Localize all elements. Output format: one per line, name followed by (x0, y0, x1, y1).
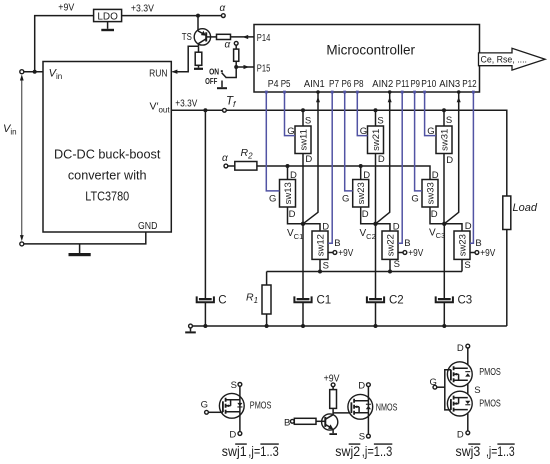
terminal alpha (top) (221, 14, 225, 18)
node VC3 (442, 222, 446, 226)
svg-text:,j=1..3: ,j=1..3 (248, 444, 278, 459)
wire VC3 down to C3 (443, 224, 445, 298)
wire P8 to sw21 G (357, 92, 367, 136)
pin P5 connection dot (283, 91, 286, 94)
svg-text:D: D (362, 209, 369, 220)
svg-text:sw21: sw21 (371, 129, 382, 151)
node rail-C3 (442, 324, 446, 328)
svg-text:sw13: sw13 (283, 182, 294, 204)
wire VC3 to sw23b D (444, 224, 462, 231)
node VC1 (301, 222, 305, 226)
svg-text:S: S (231, 380, 237, 391)
switch sw21 (368, 126, 384, 154)
svg-text:NMOS: NMOS (376, 402, 398, 413)
pin P6 connection dot (343, 91, 346, 94)
svg-text:+3.3V: +3.3V (131, 3, 154, 14)
svg-text:TS: TS (182, 32, 192, 43)
svg-text:S: S (305, 116, 311, 127)
terminal G (205, 410, 209, 414)
node rail-sw31 (442, 108, 446, 112)
svg-text:C: C (218, 294, 226, 306)
wire VC2 down to C2 (375, 224, 377, 298)
svg-text:B: B (404, 238, 410, 249)
transistor swj3 top PMOS (447, 362, 472, 387)
svg-text:+9V: +9V (338, 248, 353, 259)
stubs (226, 400, 240, 412)
wire P9 to sw33 G (415, 92, 422, 191)
svg-text:ON: ON (209, 67, 219, 76)
wire P12 to sw23b B (470, 92, 473, 243)
wire S stub sw11 (302, 110, 304, 126)
wire sw13 top D stub (287, 166, 289, 180)
wire collector to NMOS gate (333, 412, 351, 414)
switch ON/OFF (205, 67, 236, 86)
terminal +9V sw12 (328, 252, 333, 254)
wire P5 to sw11 G (285, 92, 296, 136)
caption swj1 (222, 444, 279, 459)
wire diagonal VC1 to AIN1 (303, 92, 318, 224)
pin P8 connection dot (356, 91, 359, 94)
wire rail down to capacitor C (204, 110, 206, 298)
wire diagonal VC3 to AIN3 (444, 92, 458, 224)
resistor R2 (228, 147, 257, 170)
wire VC1 down to C1 (302, 224, 304, 298)
svg-text:α: α (220, 3, 226, 14)
node +9V tap (33, 70, 37, 74)
terminal alpha (R2) (224, 164, 228, 168)
svg-text:AIN1: AIN1 (304, 79, 325, 90)
svg-text:swj3: swj3 (456, 444, 481, 459)
svg-text:G: G (201, 400, 208, 411)
gate bracket (445, 370, 451, 410)
terminal alpha (P15 pull-up) (234, 41, 238, 45)
ground on GND wire (79, 244, 81, 253)
wire to P15 with arrow (236, 65, 254, 69)
svg-text:,j=1..3: ,j=1..3 (362, 444, 393, 459)
body diode tip up (366, 406, 371, 409)
wire P11 to sw22 B (398, 92, 402, 243)
svg-text:S: S (474, 385, 480, 396)
switch sw23 (353, 180, 369, 208)
wire Vin to box (24, 71, 43, 73)
wire P6 to sw23 G (345, 92, 353, 191)
svg-text:P4: P4 (268, 79, 279, 90)
node rail-R1 (265, 324, 269, 328)
terminal D bottom (466, 431, 470, 435)
transistor swj3 bottom PMOS (447, 391, 472, 416)
arrow AIN1 (316, 97, 320, 103)
svg-text:P8: P8 (354, 79, 364, 90)
node rail-sw21 (374, 108, 378, 112)
switch sw33 (422, 180, 438, 208)
svg-text:S: S (359, 431, 365, 442)
node junction to TS emitter (196, 14, 200, 18)
svg-text:P11: P11 (396, 79, 410, 90)
wire +9V from Vin node up to LDO (35, 16, 94, 72)
terminal +9V legend (331, 383, 335, 387)
arrow toward TS on P14 wire (243, 35, 249, 39)
svg-text:sw31: sw31 (440, 129, 451, 151)
terminal D (238, 432, 242, 436)
svg-text:,j=1..3: ,j=1..3 (486, 444, 515, 459)
node R2-sw23 (359, 164, 363, 168)
svg-text:P6: P6 (342, 79, 352, 90)
resistor R1 (246, 272, 271, 327)
resistor Load (503, 196, 538, 326)
node sw12S-rail (318, 270, 322, 274)
svg-text:P12: P12 (462, 79, 477, 90)
svg-text:AIN3: AIN3 (439, 79, 460, 90)
capacitor C3 (436, 294, 473, 326)
wire P4 to sw13 G (266, 92, 279, 191)
node VC2 (373, 222, 377, 226)
svg-text:PMOS: PMOS (479, 398, 501, 409)
svg-text:swj1: swj1 (222, 444, 247, 459)
svg-text:G: G (269, 193, 276, 204)
block arrow Ce, Rse output (479, 48, 546, 70)
LDO U-LDO box (94, 9, 122, 21)
wire P10 to sw31 G (425, 92, 436, 136)
node P15 junction (234, 65, 238, 69)
wire S-rail (267, 271, 462, 273)
wire sw11 D to VC1 (302, 154, 304, 224)
resistor collector pull-up (332, 387, 334, 390)
svg-text:C1: C1 (317, 294, 332, 306)
svg-text:PMOS: PMOS (479, 367, 501, 378)
svg-text:DC-DC buck-boost: DC-DC buck-boost (54, 147, 161, 162)
node rail-C2 (374, 324, 378, 328)
capacitor C1 (294, 294, 331, 326)
svg-text:+3.3V: +3.3V (175, 98, 197, 109)
svg-text:D: D (457, 343, 464, 354)
resistor base of TS (to P14) (206, 34, 254, 39)
svg-text:D: D (465, 221, 472, 232)
svg-text:+9V: +9V (408, 248, 423, 259)
wire VC2 to sw22 D (376, 224, 391, 231)
pin P9 connection dot (413, 91, 416, 94)
wire sw13 bottom D to VC1 (288, 207, 304, 224)
terminal Vin+ (20, 70, 24, 74)
svg-text:α: α (225, 40, 231, 51)
pin AIN3 connection dot (457, 90, 461, 94)
svg-text:P7: P7 (329, 79, 339, 90)
node rail-sw11 (301, 108, 305, 112)
terminal G legend3 (433, 385, 437, 389)
svg-text:S: S (464, 260, 470, 271)
switch sw31 (436, 126, 452, 154)
svg-text:+9V: +9V (480, 248, 495, 259)
wire sw12 S stub (319, 259, 321, 271)
svg-text:G: G (342, 193, 349, 204)
gate bar (222, 401, 224, 412)
node rail-C (203, 324, 207, 328)
wire sw31 D to VC3 (443, 154, 445, 224)
svg-text:swj2: swj2 (335, 444, 360, 459)
TS collector pulldown resistor + ground (194, 46, 203, 70)
svg-text:LTC3780: LTC3780 (85, 189, 129, 204)
ground symbol bottom-left (190, 328, 192, 332)
terminal S (238, 383, 242, 387)
transistor TS (PNP) (182, 16, 211, 47)
node rail-C tap (203, 108, 207, 112)
svg-text:sw12: sw12 (316, 234, 327, 256)
wire diagonal VC2 to AIN2 (376, 92, 390, 224)
svg-text:D: D (358, 380, 365, 391)
terminal D legend2 (367, 383, 371, 387)
svg-text:RUN: RUN (149, 67, 168, 79)
svg-text:+9V: +9V (58, 3, 74, 14)
arrow AIN2 (388, 97, 392, 103)
svg-text:D: D (378, 154, 385, 165)
svg-text:D: D (289, 209, 296, 220)
svg-text:S: S (446, 115, 452, 126)
svg-text:S: S (377, 116, 383, 127)
svg-text:D: D (305, 154, 312, 165)
svg-text:G: G (411, 193, 418, 204)
wire TS collector to RUN with arrow (172, 46, 199, 74)
terminal S legend2 (367, 434, 371, 438)
wire LDO output +3.3V (122, 15, 222, 17)
switch sw23 (bottom of column 3) (454, 231, 470, 259)
wire R2 bus (257, 166, 430, 180)
terminal B (290, 419, 294, 423)
bulk dot and tie to S (227, 405, 229, 407)
svg-text:PMOS: PMOS (250, 400, 272, 411)
svg-text:GND: GND (138, 220, 158, 232)
switch sw22 (382, 231, 398, 259)
transistor swj1 PMOS symbol (219, 393, 244, 418)
ground BJT emitter (329, 433, 337, 435)
svg-text:C2: C2 (389, 294, 404, 306)
switch sw12 (312, 231, 328, 259)
resistor pull on P15 (234, 45, 239, 67)
node rail-C1 (301, 324, 305, 328)
transistor swj2 NMOS symbol (348, 394, 373, 419)
svg-text:Ce, Rse, ....: Ce, Rse, .... (481, 54, 528, 65)
svg-text:S: S (323, 261, 329, 272)
svg-text:P14: P14 (257, 33, 271, 44)
pin P7 connection dot (331, 91, 334, 94)
pin P4 connection dot (265, 91, 268, 94)
svg-text:B: B (284, 417, 290, 428)
svg-text:converter with: converter with (68, 168, 147, 183)
wire sw33 bottom D to VC3 (430, 207, 444, 224)
capacitor C2 (367, 294, 404, 326)
terminal ground rail (189, 324, 193, 328)
ground under LDO (107, 22, 109, 29)
pin P11 connection dot (401, 91, 404, 94)
transistor BJT NPN (322, 414, 338, 430)
wire sw23 top D stub (360, 166, 362, 180)
svg-text:Load: Load (513, 202, 538, 214)
svg-text:D: D (457, 429, 464, 440)
svg-text:sw23: sw23 (356, 182, 367, 204)
svg-text:D: D (229, 429, 236, 440)
pin AIN1 connection dot (316, 90, 320, 94)
capacitor C (197, 294, 227, 326)
pin P12 connection dot (472, 91, 475, 94)
node R2-sw13 (286, 164, 290, 168)
ground of OFF contact (217, 81, 227, 90)
svg-text:sw11: sw11 (299, 129, 310, 150)
svg-text:α: α (222, 153, 228, 164)
svg-text:AIN2: AIN2 (372, 79, 393, 90)
pin P10 connection dot (423, 91, 426, 94)
svg-text:LDO: LDO (97, 11, 118, 22)
terminal +9V sw22 (398, 252, 403, 254)
wire P7 to sw12 B (328, 92, 332, 243)
microcontroller U1 box (254, 25, 480, 93)
body diode tip down (237, 403, 242, 406)
terminal +9V sw23b (470, 252, 475, 254)
caption swj2 (335, 444, 392, 459)
svg-text:OFF: OFF (205, 77, 217, 86)
svg-text:P5: P5 (281, 79, 291, 90)
DC-DC converter U2 box (43, 62, 171, 233)
arrow AIN3 (457, 97, 461, 103)
wire sw23 bottom D to VC2 (361, 207, 376, 224)
wire bottom ground rail (192, 325, 506, 327)
terminal Vin- (20, 242, 24, 246)
svg-text:G: G (430, 377, 437, 388)
terminal D top (466, 344, 470, 348)
switch sw13 (280, 180, 296, 208)
wire sw23b S stub (461, 259, 463, 271)
svg-text:D: D (446, 155, 453, 166)
svg-text:C3: C3 (458, 294, 473, 306)
dimension arrow Vin (20, 75, 24, 242)
svg-text:Microcontroller: Microcontroller (326, 42, 415, 58)
wire S stub sw21 (375, 110, 377, 126)
caption swj3 (456, 444, 515, 459)
svg-text:S: S (394, 259, 400, 270)
svg-text:sw33: sw33 (426, 182, 437, 204)
channel segments (225, 398, 227, 414)
S-D through line (239, 386, 241, 431)
resistor base B (294, 418, 316, 424)
wire sw22 S stub (389, 259, 391, 271)
svg-text:D: D (431, 209, 438, 220)
pin AIN2 connection dot (388, 90, 392, 94)
+3.3V rail from V'out (171, 110, 507, 196)
wire VC1 to sw12 D (303, 224, 320, 231)
svg-text:B: B (334, 238, 340, 249)
through line (467, 348, 469, 431)
terminal Tf on rail (223, 108, 227, 112)
svg-text:sw22: sw22 (386, 234, 397, 256)
svg-text:P10: P10 (421, 79, 436, 90)
svg-text:sw23: sw23 (458, 234, 469, 256)
svg-text:P15: P15 (257, 63, 271, 74)
wire GND out (24, 232, 146, 244)
switch sw11 (295, 126, 311, 154)
node sw22S-rail (388, 270, 392, 274)
svg-text:P9: P9 (411, 79, 421, 90)
wire sw21 D to VC2 (375, 154, 377, 224)
wire S stub sw31 (443, 110, 445, 126)
